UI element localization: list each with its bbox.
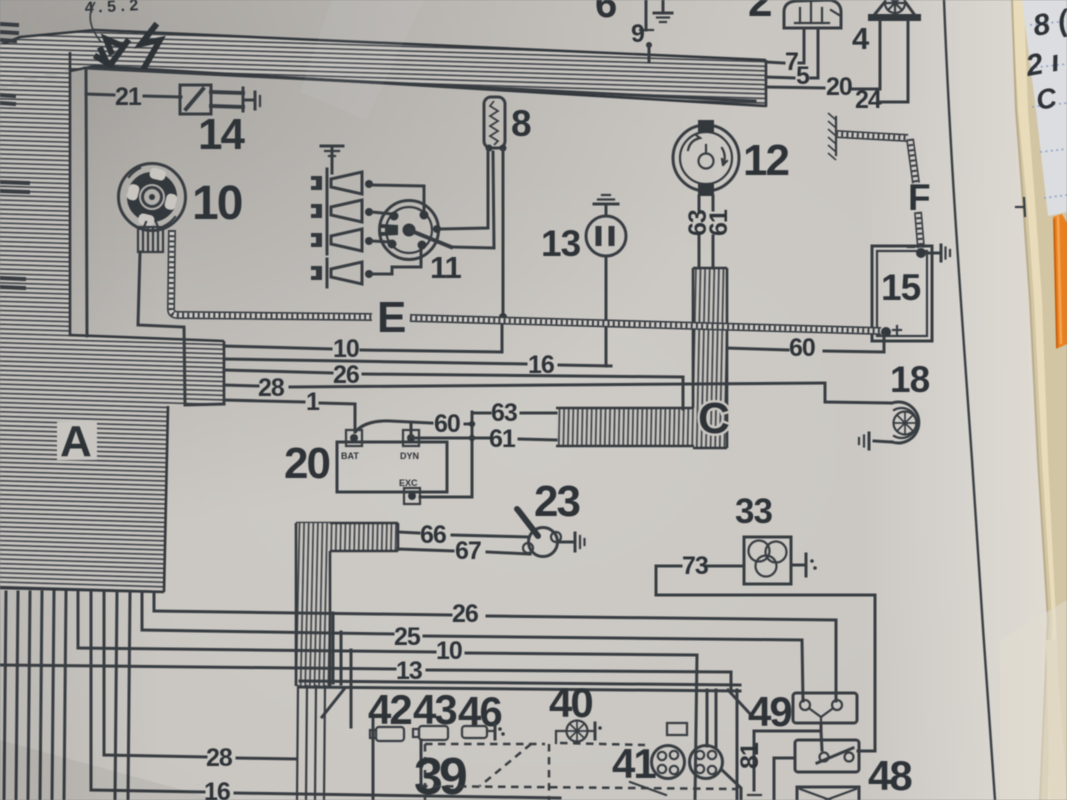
connector 41 plug B <box>690 746 723 779</box>
wire 21 <box>86 94 114 95</box>
drop wire to 26 <box>153 592 156 611</box>
ground at battery minus <box>926 245 950 261</box>
pointer line for 41 <box>630 782 666 795</box>
tail lamp 4 legs <box>879 21 882 89</box>
wire down to horn 18 <box>825 383 891 403</box>
wire 28 lower <box>104 755 206 757</box>
wire 61 from ammeter <box>712 196 715 210</box>
wire from 13 down to wire 16 <box>605 256 608 366</box>
svg-text:28: 28 <box>206 744 233 772</box>
wire 5 <box>766 77 794 78</box>
svg-text:40: 40 <box>549 679 592 726</box>
frame top line continuing to wire 24 <box>85 68 755 101</box>
drop wire to fuse 42 <box>350 650 353 727</box>
twisted wire F vertical lower <box>918 212 921 248</box>
svg-text:20: 20 <box>826 73 852 101</box>
svg-text:EXC: EXC <box>399 478 418 488</box>
drop wire to 10 <box>77 592 80 648</box>
connector 41 plug A <box>652 746 685 779</box>
coil under switch 10 <box>138 222 163 252</box>
ground above spark plugs <box>321 146 343 173</box>
wire from relay 48 down left <box>774 758 795 800</box>
svg-text:25: 25 <box>394 623 421 651</box>
wire 61 to band C <box>414 437 489 440</box>
stray ground mark on page edge <box>1016 198 1025 216</box>
svg-text:13: 13 <box>541 223 581 264</box>
harness loom band A (large) <box>0 332 224 592</box>
svg-text:6: 6 <box>595 0 616 26</box>
leader line from 4.5.2 <box>90 2 101 42</box>
wire 73 loop to relay 48 <box>656 566 875 751</box>
tail lamp 4 <box>852 0 921 56</box>
svg-text:E: E <box>377 293 405 342</box>
harness band C (vertical part) <box>693 268 727 448</box>
svg-text:1: 1 <box>306 388 320 416</box>
node A label <box>57 417 97 466</box>
svg-text:4: 4 <box>852 21 870 56</box>
page border line <box>944 0 995 800</box>
svg-text:9: 9 <box>631 20 644 48</box>
coil wire to distributor cap <box>441 150 488 229</box>
wire 26 lower <box>154 611 451 615</box>
small box right of 40 <box>667 723 687 735</box>
harness band 66/67 (vertical part) <box>296 523 330 686</box>
warning light 13 <box>541 195 626 264</box>
svg-text:60: 60 <box>789 334 815 362</box>
ammeter 12 <box>673 120 788 196</box>
plug wire 3 to distributor <box>372 241 390 242</box>
wire 16 lower <box>91 790 204 792</box>
horn 18 <box>859 359 930 449</box>
svg-text:66: 66 <box>420 521 446 549</box>
coil wire down to node E <box>502 150 505 316</box>
svg-text:28: 28 <box>258 374 285 402</box>
coil wire to rotor arm <box>453 152 494 248</box>
svg-text:61: 61 <box>705 209 733 236</box>
ground next to 6 <box>654 0 672 22</box>
box below 48 <box>797 787 859 800</box>
fan motor 33 <box>735 492 791 584</box>
wire 81 <box>754 723 821 790</box>
svg-text:61: 61 <box>489 425 516 453</box>
fuse 43 <box>413 726 448 785</box>
pencil <box>1053 214 1067 349</box>
twisted wire F vertical upper <box>910 139 916 183</box>
headlamp 2 <box>748 0 841 28</box>
harness band 66/67 (horizontal part) <box>296 523 398 551</box>
ignition coil 8 <box>484 97 531 152</box>
spark plug 1 <box>311 169 373 197</box>
wire 67 <box>398 549 453 551</box>
wire 20 <box>766 87 824 88</box>
svg-text:67: 67 <box>455 537 481 565</box>
ground at switch 23 <box>558 533 585 551</box>
wire 16 upper <box>224 359 526 364</box>
svg-text:18: 18 <box>890 359 930 400</box>
wire 10 lower <box>78 648 435 652</box>
svg-text:A: A <box>60 417 91 466</box>
page edge cream strip <box>1012 0 1067 800</box>
long dashed connector line <box>420 786 736 789</box>
wire 63 from ammeter <box>698 196 701 210</box>
headlamp 2 pins <box>803 28 806 63</box>
relay 48 <box>795 740 912 799</box>
svg-text:24: 24 <box>855 86 882 114</box>
plug wire 4 to distributor <box>372 247 421 274</box>
svg-text:15: 15 <box>881 267 921 308</box>
svg-text:20: 20 <box>284 439 329 488</box>
svg-text:10: 10 <box>333 335 359 363</box>
wire 10 upper <box>224 346 331 349</box>
twisted wire F horizontal <box>836 134 908 138</box>
harness loom band top (horizontal) <box>0 30 766 107</box>
svg-text:2: 2 <box>748 0 771 26</box>
svg-text:23: 23 <box>534 477 579 526</box>
instrument panel rail <box>300 681 753 717</box>
lamp 40 <box>556 721 602 744</box>
svg-text:39: 39 <box>414 748 466 800</box>
warm paper beyond edge bottom <box>1046 640 1067 800</box>
handwriting on ruled paper <box>1023 4 1067 116</box>
wire 28 upper to horn <box>224 385 258 386</box>
svg-text:48: 48 <box>868 752 912 799</box>
spark plug 2 <box>311 197 373 225</box>
drop wire to 16 <box>90 592 93 790</box>
svg-text:5: 5 <box>796 62 810 90</box>
box frame around panel units <box>372 719 375 741</box>
wire 26 upper <box>224 370 332 373</box>
wire stubs entering left edge middle <box>0 182 28 183</box>
fuse 14 <box>180 85 260 159</box>
wire 13 lower <box>0 665 395 669</box>
connector 41 wires <box>706 690 709 746</box>
wire 7 <box>766 62 784 63</box>
wires continuing below band 66 <box>297 686 298 800</box>
harness band C (horizontal part) <box>556 408 694 446</box>
white ruled paper top right <box>1022 0 1067 216</box>
distributor 11 <box>380 201 462 286</box>
frame left edge <box>86 70 87 336</box>
spark plug 4 <box>311 259 373 287</box>
svg-text:81: 81 <box>736 742 764 769</box>
svg-text:8 (: 8 ( <box>1030 4 1067 43</box>
svg-text:12: 12 <box>743 136 788 185</box>
svg-text:21: 21 <box>115 83 142 111</box>
svg-text:8: 8 <box>511 103 531 144</box>
wire 63 to band C <box>472 412 490 415</box>
plug wire 2 to distributor <box>372 212 392 214</box>
svg-text:26: 26 <box>333 361 359 389</box>
wire 66 <box>398 532 419 533</box>
ignition switch 23 <box>514 477 579 557</box>
harness loom band left (vertical) <box>0 44 70 335</box>
twisted wire from switch 10 down to node E <box>171 230 372 317</box>
drop wire to 25 <box>141 592 144 630</box>
wire 60 battery to band C <box>824 335 884 352</box>
wall anchor for wire F <box>828 113 836 160</box>
svg-text:14: 14 <box>198 110 245 159</box>
svg-text:F: F <box>908 177 930 218</box>
light switch 10 <box>119 164 242 231</box>
left harness drop wires <box>4 592 6 800</box>
spark plug 3 <box>311 226 373 254</box>
wire stubs entering left edge top <box>0 24 17 25</box>
svg-text:BAT: BAT <box>341 451 359 461</box>
svg-text:DYN: DYN <box>400 451 419 461</box>
drop wires to panel <box>332 613 335 683</box>
paper crease highlight <box>300 0 424 120</box>
dashed unit 39 <box>414 743 645 800</box>
wire 73 <box>705 565 744 568</box>
svg-text:11: 11 <box>430 250 462 285</box>
svg-text:10: 10 <box>192 177 242 230</box>
fuse 42 <box>370 727 404 800</box>
wire from 49 to 48 <box>821 731 822 750</box>
voltage regulator 20 <box>284 430 447 504</box>
arrow symbol 7 (flasher mark) <box>97 26 160 68</box>
wire 1 label <box>224 400 304 402</box>
svg-text:2 ı: 2 ı <box>1023 45 1063 83</box>
svg-text:49: 49 <box>748 688 791 735</box>
svg-text:63: 63 <box>491 399 517 427</box>
wire 1 from coil via frame path <box>138 252 224 405</box>
drop wire to 28 <box>103 592 106 755</box>
svg-text:41: 41 <box>612 740 656 787</box>
svg-text:26: 26 <box>452 600 478 628</box>
svg-text:60: 60 <box>434 410 460 438</box>
wire 60 from regulator <box>356 421 432 431</box>
svg-text:73: 73 <box>682 552 708 580</box>
svg-text:C: C <box>698 394 729 443</box>
relay 49 <box>748 688 857 735</box>
fuse 46 with terminal <box>462 724 505 739</box>
battery 15 <box>872 246 932 341</box>
junction wire to EXC <box>420 412 472 497</box>
wire 25 lower <box>142 630 393 634</box>
svg-text:10: 10 <box>436 637 462 665</box>
wire of lamp 6 <box>645 0 648 30</box>
terminal bar right of 33 <box>791 554 817 576</box>
svg-text:33: 33 <box>735 492 772 531</box>
plug wire 1 to distributor <box>372 185 424 212</box>
